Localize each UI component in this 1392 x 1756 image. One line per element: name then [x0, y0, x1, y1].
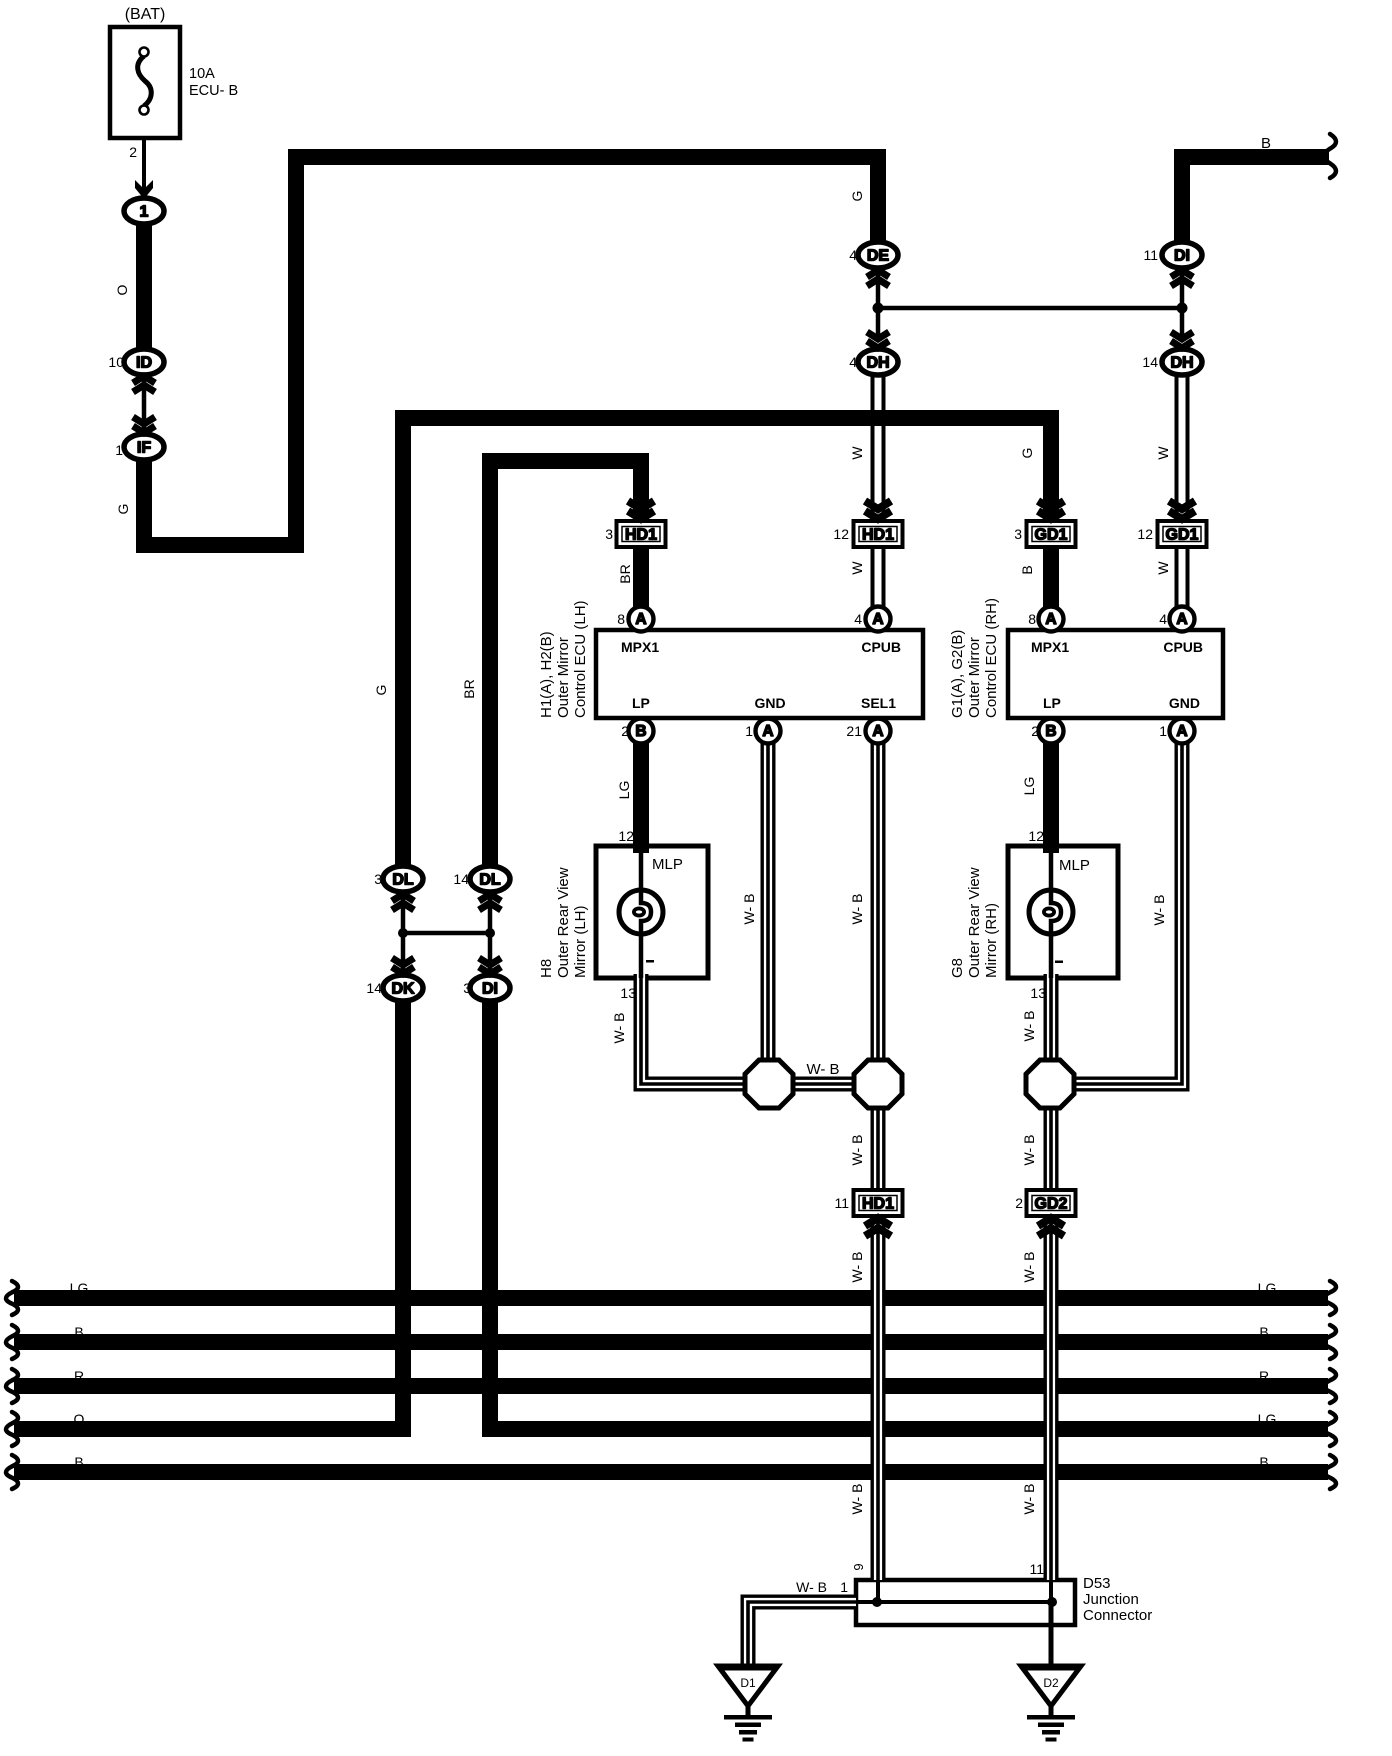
svg-text:DH: DH	[1170, 355, 1193, 372]
svg-text:MLP: MLP	[652, 856, 683, 873]
svg-text:3: 3	[374, 871, 382, 887]
svg-text:21: 21	[846, 723, 862, 739]
connector ID pin 10	[124, 349, 164, 375]
svg-text:W- B: W- B	[1021, 1011, 1037, 1042]
svg-text:B: B	[1259, 1324, 1268, 1340]
motor MLP (mirror RH)	[1029, 890, 1073, 934]
svg-text:G: G	[849, 191, 865, 202]
junction connector D53 box	[856, 1580, 1075, 1625]
svg-text:12: 12	[1028, 828, 1044, 844]
connector DE pin 4	[858, 242, 898, 268]
svg-text:A: A	[635, 611, 646, 628]
svg-text:11: 11	[1029, 1561, 1044, 1577]
arrow down into IF	[133, 417, 155, 433]
svg-text:G: G	[1019, 448, 1035, 459]
wire W-B (octagon joint to GD2 2 to D53 pin 11)	[1044, 1106, 1059, 1580]
arrow up into DL 3	[392, 894, 414, 910]
svg-text:Control ECU (RH): Control ECU (RH)	[983, 598, 1000, 718]
svg-text:LG: LG	[1258, 1411, 1277, 1427]
wire G (vertical 1 upper, to DL 3)	[395, 410, 411, 868]
svg-text:DL: DL	[479, 872, 501, 889]
svg-text:14: 14	[366, 980, 382, 996]
connector DH pin 14	[1162, 349, 1202, 375]
mirror G8 Outer Rear View Mirror (RH) box	[1008, 846, 1118, 978]
wire inside D53 junction connector	[856, 1580, 1052, 1602]
svg-text:13: 13	[620, 985, 636, 1001]
svg-text:CPUB: CPUB	[1163, 639, 1203, 655]
arrow up into DE	[867, 270, 889, 286]
svg-text:9: 9	[851, 1563, 866, 1570]
break symbol wire B top right	[1324, 134, 1336, 178]
svg-text:GD1: GD1	[1035, 527, 1068, 544]
svg-text:R: R	[1259, 1368, 1269, 1384]
op-amp U2 Outer Mirror Control ECU (RH) box	[1008, 630, 1223, 718]
svg-text:W: W	[1155, 446, 1171, 460]
svg-text:IF: IF	[137, 440, 151, 457]
arrow down into GD1 12	[1169, 501, 1195, 519]
wire bus B (row 5)	[14, 1464, 1328, 1480]
svg-text:13: 13	[1030, 985, 1046, 1001]
svg-text:LP: LP	[632, 695, 650, 711]
break symbol left bus row 1	[6, 1281, 18, 1315]
pin 8 A (MPX1 RH)	[1039, 607, 1064, 632]
wire (DI to DH, RH)	[1180, 262, 1185, 335]
svg-text:10A: 10A	[189, 66, 215, 82]
svg-text:GND: GND	[1169, 695, 1200, 711]
break symbol right bus row 4	[1324, 1412, 1336, 1446]
connector DH pin 4	[858, 349, 898, 375]
svg-text:B: B	[1261, 135, 1271, 152]
arrow down into DI 3	[479, 958, 501, 974]
svg-text:CPUB: CPUB	[861, 639, 901, 655]
svg-text:HD1: HD1	[862, 527, 894, 544]
ground D2	[1021, 1666, 1081, 1742]
wire W-B (mirror LH pin 13 to octagon joint)	[641, 974, 748, 1084]
op-amp U1 Outer Mirror Control ECU (LH) box	[596, 630, 923, 718]
joint connector octagon right	[1026, 1060, 1074, 1108]
wire inside mirror LH (pin 12 to pin 13)	[639, 850, 644, 978]
wire node junction DE-DI	[878, 306, 1182, 311]
svg-text:GND: GND	[754, 695, 785, 711]
svg-text:B: B	[1019, 565, 1035, 574]
svg-text:1: 1	[840, 1579, 848, 1595]
connector HD1 pin 11	[854, 1190, 903, 1216]
break symbol left bus row 2	[6, 1325, 18, 1359]
connector GD1 pin 3	[1027, 521, 1076, 547]
node D53 pin 1 joint	[872, 1597, 882, 1607]
svg-text:GD2: GD2	[1035, 1196, 1068, 1213]
svg-text:1: 1	[1159, 723, 1167, 739]
arrow down into HD1 3	[628, 501, 654, 519]
svg-text:2: 2	[1015, 1195, 1023, 1211]
break symbol right bus row 3	[1324, 1369, 1336, 1403]
wire W-B (octagon joint to HD1 11 to D53 pin 9)	[871, 1106, 886, 1580]
svg-text:G1(A), G2(B): G1(A), G2(B)	[949, 630, 966, 718]
break symbol right bus row 1	[1324, 1281, 1336, 1315]
svg-text:O: O	[74, 1411, 85, 1427]
svg-text:A: A	[762, 723, 773, 740]
svg-text:HD1: HD1	[625, 527, 657, 544]
wire O (vertical 1 lower, DK 14 to bus row 4)	[395, 999, 411, 1429]
svg-text:W- B: W- B	[1021, 1135, 1037, 1166]
label minus LH	[646, 960, 654, 963]
arrow into connector 1	[135, 180, 153, 199]
wire LG (LP pin 2 to mirror pin 12, LH)	[633, 728, 649, 853]
wire W (DH 14 to GD1 12, RH)	[1175, 370, 1190, 525]
connector 1	[124, 198, 164, 224]
connector GD2 pin 2	[1027, 1190, 1076, 1216]
svg-text:Mirror (RH): Mirror (RH)	[983, 903, 1000, 978]
svg-text:4: 4	[1159, 611, 1167, 627]
svg-text:1: 1	[115, 442, 123, 458]
wire B (DI up and right to break)	[1182, 157, 1329, 244]
break symbol left bus row 3	[6, 1369, 18, 1403]
svg-text:SEL1: SEL1	[861, 695, 896, 711]
wire LG (vertical 2 lower, DI 3 to bus row 4)	[482, 999, 498, 1429]
svg-text:A: A	[1045, 611, 1056, 628]
svg-text:R: R	[74, 1368, 84, 1384]
wire bus R (row 3)	[14, 1378, 1328, 1394]
wire W-B (mirror RH pin 13 to octagon joint)	[1044, 974, 1059, 1062]
break symbol left bus row 5	[6, 1455, 18, 1489]
svg-text:3: 3	[1014, 526, 1022, 542]
svg-text:O: O	[114, 284, 130, 295]
connector DI pin 11	[1162, 242, 1202, 268]
svg-text:W- B: W- B	[741, 894, 757, 925]
pin 4 A (CPUB LH)	[866, 607, 891, 632]
wire BR (horizontal to HD1 3 drop)	[482, 461, 641, 523]
wire (D53 to ground D2)	[1049, 1602, 1054, 1668]
svg-text:B: B	[1259, 1454, 1268, 1470]
svg-text:W: W	[849, 446, 865, 460]
svg-text:LG: LG	[70, 1280, 89, 1296]
svg-text:10: 10	[108, 354, 124, 370]
break symbol right bus row 2	[1324, 1325, 1336, 1359]
pin 1 A (GND LH)	[756, 719, 781, 744]
pin 1 A (GND RH)	[1170, 719, 1195, 744]
svg-text:Outer Mirror: Outer Mirror	[966, 637, 983, 718]
fuse 10A ECU-B	[110, 27, 180, 138]
svg-text:A: A	[872, 723, 883, 740]
pin 21 A (SEL1 LH)	[866, 719, 891, 744]
arrow up into DL 14	[479, 894, 501, 910]
svg-text:D1: D1	[740, 1676, 756, 1690]
wire G (long horizontal to GD1 3 drop)	[395, 418, 1051, 523]
wire W-B (octagon joint to octagon joint)	[791, 1077, 856, 1092]
wire inside mirror RH (pin 12 to pin 13)	[1049, 850, 1054, 978]
svg-text:A: A	[872, 611, 883, 628]
svg-text:12: 12	[1137, 526, 1153, 542]
svg-text:W- B: W- B	[1021, 1252, 1037, 1283]
arrow up into ID	[133, 376, 155, 392]
svg-text:1: 1	[140, 204, 149, 221]
arrow up into GD2 2	[1038, 1218, 1064, 1236]
svg-text:2: 2	[129, 144, 137, 160]
svg-text:ECU- B: ECU- B	[189, 83, 238, 99]
svg-text:W- B: W- B	[849, 1135, 865, 1166]
svg-text:A: A	[1176, 723, 1187, 740]
svg-text:11: 11	[1143, 247, 1158, 263]
break symbol left bus row 4	[6, 1412, 18, 1446]
svg-text:ID: ID	[136, 355, 152, 372]
svg-text:W: W	[849, 561, 865, 575]
svg-text:W- B: W- B	[849, 1484, 865, 1515]
arrow up into DI	[1171, 270, 1193, 286]
svg-text:2: 2	[1031, 723, 1039, 739]
wire W (HD1 12 to CPUB pin 4, LH)	[871, 545, 886, 622]
svg-text:DI: DI	[482, 981, 498, 998]
svg-text:W- B: W- B	[796, 1579, 827, 1595]
wire O (connector 1 to ID)	[136, 220, 152, 352]
svg-text:W- B: W- B	[1151, 895, 1167, 926]
svg-text:BR: BR	[617, 564, 633, 583]
svg-text:Outer Mirror: Outer Mirror	[555, 637, 572, 718]
wire fuse lead (fuse to connector 1)	[142, 114, 146, 200]
svg-text:Connector: Connector	[1083, 1607, 1152, 1624]
motor MLP (mirror LH)	[619, 890, 663, 934]
wire bus O (row 4 left segment)	[14, 1421, 411, 1437]
node D53 pin 11 joint	[1047, 1597, 1057, 1607]
connector HD1 pin 12	[854, 521, 903, 547]
wire BR (HD1 3 to MPX1 pin 8, LH)	[633, 545, 649, 622]
svg-text:G: G	[115, 504, 131, 515]
svg-text:12: 12	[618, 828, 634, 844]
arrow down into GD1 3	[1038, 501, 1064, 519]
connector DL pin 3	[383, 866, 423, 892]
svg-text:LG: LG	[616, 781, 632, 800]
svg-text:W- B: W- B	[806, 1061, 839, 1078]
wire W (DH 4 to HD1 12, LH)	[871, 370, 886, 525]
svg-text:W- B: W- B	[1021, 1484, 1037, 1515]
svg-text:LG: LG	[1021, 777, 1037, 796]
wire B (GD1 3 to MPX1 pin 8, RH)	[1043, 545, 1059, 622]
wire (ID to IF)	[142, 374, 147, 436]
svg-text:DH: DH	[866, 355, 889, 372]
svg-text:HD1: HD1	[862, 1196, 894, 1213]
wire W-B (SEL1 pin 21 to octagon joint)	[871, 728, 886, 1062]
wire W-B (GND pin 1 LH to octagon joint)	[761, 728, 776, 1062]
pin 8 A (MPX1 LH)	[629, 607, 654, 632]
label minus RH	[1055, 961, 1063, 964]
arrow down into HD1 12	[865, 501, 891, 519]
svg-text:W: W	[1155, 561, 1171, 575]
mirror H8 Outer Rear View Mirror (LH) box	[596, 846, 708, 978]
svg-text:Outer Rear View: Outer Rear View	[555, 867, 572, 978]
connector DI pin 3	[470, 975, 510, 1001]
svg-text:B: B	[74, 1454, 83, 1470]
svg-text:Junction: Junction	[1083, 1591, 1139, 1608]
node junction at DE branch	[873, 303, 884, 314]
svg-text:W- B: W- B	[849, 894, 865, 925]
svg-text:14: 14	[453, 871, 469, 887]
wire BR (vertical 2 upper, to DL 14)	[482, 453, 498, 868]
svg-text:DK: DK	[391, 981, 415, 998]
svg-text:8: 8	[617, 611, 625, 627]
ground D1	[718, 1666, 778, 1742]
svg-text:Outer Rear View: Outer Rear View	[966, 867, 983, 978]
wire (DL to DI)	[488, 890, 493, 978]
connector GD1 pin 12	[1158, 521, 1207, 547]
wire (DL to DK)	[401, 890, 406, 978]
svg-text:W- B: W- B	[849, 1252, 865, 1283]
svg-text:DE: DE	[867, 248, 890, 265]
arrow down into DK	[392, 958, 414, 974]
svg-text:BR: BR	[461, 679, 477, 698]
wire bus LG (row 4 right segment)	[482, 1421, 1328, 1437]
wire (DE to DH, LH)	[876, 262, 881, 335]
svg-text:H1(A), H2(B): H1(A), H2(B)	[538, 631, 555, 718]
svg-text:8: 8	[1028, 611, 1036, 627]
svg-text:MPX1: MPX1	[1031, 639, 1069, 655]
svg-text:2: 2	[621, 723, 629, 739]
svg-text:H8: H8	[538, 959, 555, 978]
wire bus LG (row 1)	[14, 1290, 1328, 1306]
arrow down into DH LH	[867, 332, 889, 348]
svg-text:Mirror (LH): Mirror (LH)	[572, 906, 589, 979]
svg-text:1: 1	[745, 723, 753, 739]
svg-text:12: 12	[833, 526, 849, 542]
joint connector octagon middle	[854, 1060, 902, 1108]
connector HD1 pin 3	[617, 521, 666, 547]
connector DL pin 14	[470, 866, 510, 892]
svg-text:14: 14	[1142, 354, 1158, 370]
wire LG (LP pin 2 to mirror pin 12, RH)	[1043, 728, 1059, 853]
svg-text:3: 3	[463, 980, 471, 996]
svg-text:11: 11	[834, 1195, 849, 1211]
arrow down into DH RH	[1171, 332, 1193, 348]
svg-text:B: B	[635, 723, 646, 740]
svg-text:4: 4	[849, 247, 857, 263]
svg-text:B: B	[74, 1324, 83, 1340]
break symbol right bus row 5	[1324, 1455, 1336, 1489]
wire bus B (row 2)	[14, 1334, 1328, 1350]
svg-text:MLP: MLP	[1059, 857, 1090, 874]
svg-text:D53: D53	[1083, 1575, 1111, 1592]
arrow up into HD1 11	[865, 1218, 891, 1236]
svg-text:A: A	[1176, 611, 1187, 628]
svg-text:G: G	[373, 685, 389, 696]
wire W-B (GND pin 1 RH to octagon joint)	[1072, 740, 1182, 1084]
svg-text:4: 4	[854, 611, 862, 627]
connector DK pin 14	[383, 975, 423, 1001]
wire W (GD1 12 to CPUB pin 4, RH)	[1175, 545, 1190, 622]
wire G (IF down, right, up and over to DE)	[144, 157, 878, 545]
svg-text:MPX1: MPX1	[621, 639, 659, 655]
svg-text:B: B	[1045, 723, 1056, 740]
svg-text:4: 4	[849, 354, 857, 370]
node junction at DL left	[398, 928, 408, 938]
svg-text:D2: D2	[1043, 1676, 1059, 1690]
pin 2 B (LP RH)	[1039, 719, 1064, 744]
node junction at DL right	[485, 928, 495, 938]
connector IF pin 1	[124, 434, 164, 460]
node junction at DI branch	[1177, 303, 1188, 314]
svg-text:Control ECU (LH): Control ECU (LH)	[572, 600, 589, 718]
svg-text:LP: LP	[1043, 695, 1061, 711]
svg-text:(BAT): (BAT)	[125, 6, 166, 23]
svg-text:W- B: W- B	[611, 1013, 627, 1044]
svg-text:GD1: GD1	[1166, 527, 1199, 544]
pin 2 B (LP LH)	[629, 719, 654, 744]
pin 4 A (CPUB RH)	[1170, 607, 1195, 632]
svg-text:LG: LG	[1258, 1280, 1277, 1296]
svg-text:DI: DI	[1174, 248, 1190, 265]
svg-text:3: 3	[605, 526, 613, 542]
wire node junction DL-DL	[403, 931, 490, 936]
wire W-B (D53 pin 1 to ground D1)	[748, 1602, 856, 1667]
svg-text:DL: DL	[392, 872, 414, 889]
joint connector octagon left	[745, 1060, 793, 1108]
svg-text:G8: G8	[949, 958, 966, 978]
